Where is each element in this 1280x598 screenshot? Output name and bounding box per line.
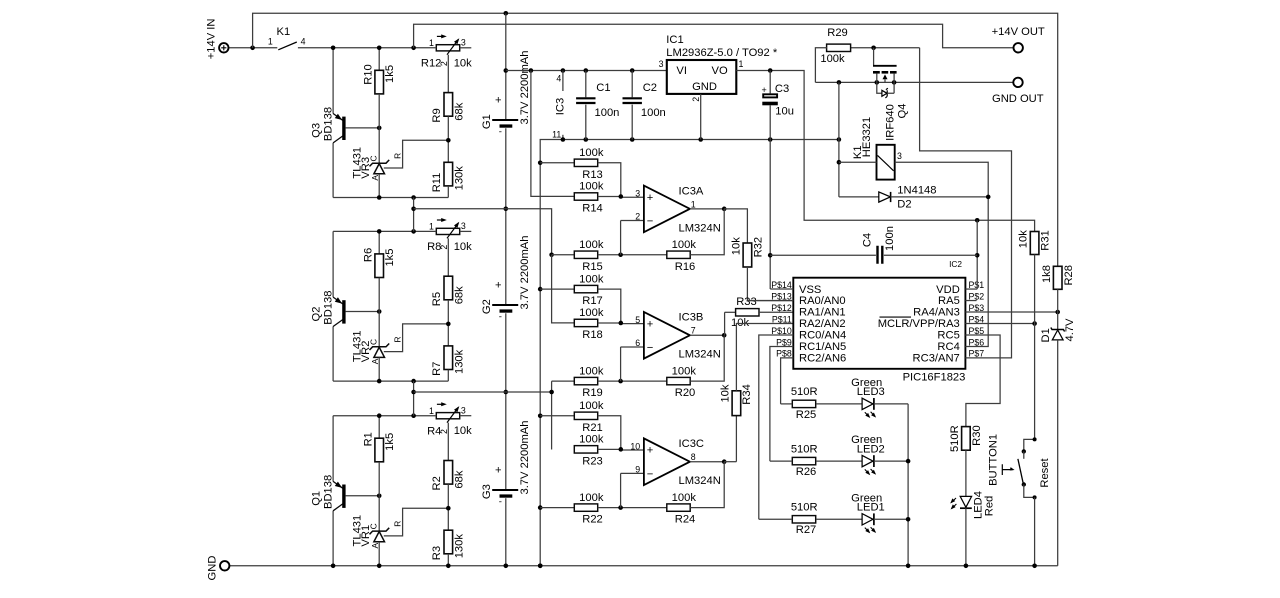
svg-text:BD138: BD138 xyxy=(322,475,334,509)
svg-text:4: 4 xyxy=(556,74,561,84)
svg-text:100k: 100k xyxy=(579,400,604,412)
svg-text:130k: 130k xyxy=(453,166,465,191)
svg-text:10k: 10k xyxy=(454,57,472,69)
svg-text:R6: R6 xyxy=(362,248,374,262)
svg-text:1: 1 xyxy=(691,199,696,209)
svg-text:P$13: P$13 xyxy=(771,291,792,301)
svg-text:R17: R17 xyxy=(582,295,603,307)
svg-text:LED2: LED2 xyxy=(857,443,885,455)
svg-text:R2: R2 xyxy=(431,476,443,490)
svg-text:1k5: 1k5 xyxy=(384,65,396,83)
svg-text:130k: 130k xyxy=(453,349,465,374)
svg-text:C2: C2 xyxy=(643,82,657,94)
svg-text:P$12: P$12 xyxy=(771,303,792,313)
svg-text:8: 8 xyxy=(691,452,696,462)
svg-text:IC3A: IC3A xyxy=(679,185,704,197)
svg-text:100k: 100k xyxy=(672,239,697,251)
svg-text:Reset: Reset xyxy=(1039,458,1051,488)
svg-text:68k: 68k xyxy=(453,470,465,488)
svg-text:100k: 100k xyxy=(579,147,604,159)
svg-text:Q3: Q3 xyxy=(311,123,323,138)
svg-text:LED3: LED3 xyxy=(857,386,885,398)
svg-text:10u: 10u xyxy=(775,106,794,118)
svg-text:100k: 100k xyxy=(579,307,604,319)
svg-text:R7: R7 xyxy=(431,362,443,376)
svg-text:P$1: P$1 xyxy=(969,280,985,290)
svg-text:LM324N: LM324N xyxy=(679,475,721,487)
svg-text:P$2: P$2 xyxy=(969,291,985,301)
svg-text:R16: R16 xyxy=(675,261,696,273)
svg-text:LED1: LED1 xyxy=(857,502,885,514)
svg-text:P$4: P$4 xyxy=(969,314,985,324)
svg-text:BD138: BD138 xyxy=(322,290,334,324)
svg-text:RC1/AN5: RC1/AN5 xyxy=(799,341,846,353)
svg-text:R31: R31 xyxy=(1040,230,1052,251)
svg-text:RC4: RC4 xyxy=(937,341,959,353)
svg-text:GND: GND xyxy=(692,81,717,93)
svg-text:BUTTON1: BUTTON1 xyxy=(987,434,999,486)
svg-text:1: 1 xyxy=(429,38,434,48)
svg-text:4: 4 xyxy=(301,36,306,46)
svg-text:R: R xyxy=(393,336,403,342)
svg-text:IC3B: IC3B xyxy=(679,312,704,324)
svg-text:LM2936Z-5.0 / TO92 *: LM2936Z-5.0 / TO92 * xyxy=(666,47,778,59)
svg-text:R32: R32 xyxy=(752,237,764,258)
svg-text:100k: 100k xyxy=(579,365,604,377)
svg-text:R29: R29 xyxy=(827,27,848,39)
svg-text:R: R xyxy=(393,521,403,527)
svg-text:G2: G2 xyxy=(481,299,493,314)
svg-text:7: 7 xyxy=(691,326,696,336)
svg-text:C4: C4 xyxy=(861,233,873,247)
svg-text:VI: VI xyxy=(676,65,687,77)
svg-text:3.7V 2200mAh: 3.7V 2200mAh xyxy=(519,235,531,309)
svg-text:68k: 68k xyxy=(453,102,465,120)
svg-text:IC3: IC3 xyxy=(555,98,567,115)
svg-text:11: 11 xyxy=(552,130,561,140)
svg-text:100k: 100k xyxy=(672,365,697,377)
svg-text:+: + xyxy=(647,445,654,457)
svg-text:510R: 510R xyxy=(791,443,818,455)
svg-text:R34: R34 xyxy=(741,384,753,405)
svg-text:10k: 10k xyxy=(454,241,472,253)
svg-text:C1: C1 xyxy=(596,82,610,94)
svg-text:R21: R21 xyxy=(582,422,603,434)
svg-text:1: 1 xyxy=(739,59,744,69)
svg-text:+: + xyxy=(495,95,502,107)
svg-text:P$10: P$10 xyxy=(771,326,792,336)
svg-text:C: C xyxy=(369,523,379,529)
svg-text:100k: 100k xyxy=(820,53,845,65)
svg-text:P$9: P$9 xyxy=(776,337,792,347)
svg-text:LM324N: LM324N xyxy=(679,222,721,234)
svg-text:R1: R1 xyxy=(362,432,374,446)
svg-text:−: − xyxy=(647,342,654,354)
svg-text:10k: 10k xyxy=(454,425,472,437)
svg-text:3.7V 2200mAh: 3.7V 2200mAh xyxy=(519,50,531,124)
svg-text:+: + xyxy=(647,192,654,204)
svg-text:P$3: P$3 xyxy=(969,303,985,313)
svg-text:D1: D1 xyxy=(1040,328,1052,342)
svg-text:G1: G1 xyxy=(481,114,493,129)
svg-text:1k5: 1k5 xyxy=(384,433,396,451)
svg-text:10k: 10k xyxy=(731,237,743,255)
svg-text:-: - xyxy=(499,497,502,508)
svg-text:3: 3 xyxy=(897,151,902,161)
svg-text:100n: 100n xyxy=(884,226,896,251)
svg-text:R15: R15 xyxy=(582,261,603,273)
svg-text:100k: 100k xyxy=(579,492,604,504)
svg-text:100k: 100k xyxy=(579,434,604,446)
svg-text:C: C xyxy=(369,155,379,161)
svg-text:3: 3 xyxy=(461,405,466,415)
svg-text:100n: 100n xyxy=(641,107,666,119)
svg-text:+: + xyxy=(762,85,767,95)
svg-text:GND: GND xyxy=(207,556,219,581)
svg-text:C: C xyxy=(369,339,379,345)
svg-text:1k8: 1k8 xyxy=(1041,265,1053,283)
svg-text:P$14: P$14 xyxy=(771,280,792,290)
svg-text:PIC16F1823: PIC16F1823 xyxy=(903,372,966,384)
svg-text:GND OUT: GND OUT xyxy=(992,93,1044,105)
svg-text:D2: D2 xyxy=(897,199,911,211)
svg-text:3: 3 xyxy=(659,59,664,69)
svg-text:RA0/AN0: RA0/AN0 xyxy=(799,295,846,307)
svg-text:BD138: BD138 xyxy=(322,107,334,141)
svg-text:10k: 10k xyxy=(731,317,749,329)
svg-text:R14: R14 xyxy=(582,203,603,215)
svg-text:130k: 130k xyxy=(453,534,465,559)
svg-text:Q2: Q2 xyxy=(311,307,323,322)
svg-text:R13: R13 xyxy=(582,169,603,181)
svg-text:R27: R27 xyxy=(796,524,817,536)
svg-text:+: + xyxy=(647,318,654,330)
svg-text:R4: R4 xyxy=(427,426,441,438)
svg-text:100n: 100n xyxy=(595,107,620,119)
svg-text:68k: 68k xyxy=(453,286,465,304)
svg-text:Red: Red xyxy=(983,496,995,517)
svg-text:RA4/AN3: RA4/AN3 xyxy=(913,307,960,319)
svg-text:RC2/AN6: RC2/AN6 xyxy=(799,353,846,365)
svg-text:RC3/AN7: RC3/AN7 xyxy=(913,353,960,365)
svg-text:−: − xyxy=(647,468,654,480)
svg-text:MCLR/VPP/RA3: MCLR/VPP/RA3 xyxy=(878,318,960,330)
svg-text:3: 3 xyxy=(461,38,466,48)
svg-text:3.7V 2200mAh: 3.7V 2200mAh xyxy=(519,420,531,494)
svg-text:R25: R25 xyxy=(796,409,817,421)
svg-text:C3: C3 xyxy=(775,83,789,95)
svg-text:R5: R5 xyxy=(431,292,443,306)
svg-text:4.7V: 4.7V xyxy=(1064,318,1076,342)
svg-text:P$5: P$5 xyxy=(969,326,985,336)
svg-text:10k: 10k xyxy=(1018,230,1030,248)
svg-text:510R: 510R xyxy=(791,502,818,514)
svg-text:1k5: 1k5 xyxy=(384,249,396,267)
svg-text:10: 10 xyxy=(630,441,640,451)
svg-text:-: - xyxy=(499,312,502,323)
svg-text:1: 1 xyxy=(429,406,434,416)
svg-text:100k: 100k xyxy=(579,273,604,285)
svg-text:R11: R11 xyxy=(431,173,443,193)
svg-text:10k: 10k xyxy=(720,384,732,402)
svg-text:G3: G3 xyxy=(481,484,493,499)
svg-text:510R: 510R xyxy=(949,425,961,452)
svg-text:R23: R23 xyxy=(582,455,603,467)
svg-text:3: 3 xyxy=(635,188,640,198)
svg-text:+: + xyxy=(495,465,502,477)
svg-text:1: 1 xyxy=(268,36,273,46)
svg-text:R19: R19 xyxy=(582,387,603,399)
svg-text:2: 2 xyxy=(635,211,640,221)
svg-text:LM324N: LM324N xyxy=(679,349,721,361)
svg-text:A: A xyxy=(370,542,380,548)
svg-text:IC2: IC2 xyxy=(949,259,962,269)
svg-text:K1: K1 xyxy=(277,26,291,38)
svg-text:1N4148: 1N4148 xyxy=(897,184,936,196)
svg-text:R28: R28 xyxy=(1063,265,1075,286)
svg-text:9: 9 xyxy=(635,464,640,474)
svg-text:510R: 510R xyxy=(791,386,818,398)
svg-text:RA2/AN2: RA2/AN2 xyxy=(799,318,846,330)
svg-text:1: 1 xyxy=(429,222,434,232)
svg-text:VSS: VSS xyxy=(799,284,821,296)
svg-text:−: − xyxy=(647,215,654,227)
svg-text:R33: R33 xyxy=(736,296,757,308)
svg-text:R9: R9 xyxy=(431,108,443,122)
svg-text:R12: R12 xyxy=(421,58,442,70)
svg-text:A: A xyxy=(370,175,380,181)
svg-text:+14V IN: +14V IN xyxy=(205,19,217,60)
svg-text:VDD: VDD xyxy=(936,284,960,296)
svg-text:-: - xyxy=(499,127,502,138)
svg-text:100k: 100k xyxy=(579,239,604,251)
svg-text:IC3C: IC3C xyxy=(679,438,705,450)
svg-text:A: A xyxy=(370,358,380,364)
svg-text:P$6: P$6 xyxy=(969,337,985,347)
svg-text:P$7: P$7 xyxy=(969,349,985,359)
svg-text:Q4: Q4 xyxy=(896,104,908,119)
svg-text:VO: VO xyxy=(712,65,728,77)
svg-text:P$8: P$8 xyxy=(776,349,792,359)
svg-text:HE3321: HE3321 xyxy=(861,117,873,157)
svg-text:R: R xyxy=(393,153,403,159)
svg-text:RC0/AN4: RC0/AN4 xyxy=(799,330,846,342)
svg-text:2: 2 xyxy=(691,97,701,102)
svg-text:P$11: P$11 xyxy=(772,314,792,324)
svg-text:IC1: IC1 xyxy=(666,34,683,46)
svg-text:R20: R20 xyxy=(675,387,696,399)
svg-text:R18: R18 xyxy=(582,329,603,341)
svg-text:R22: R22 xyxy=(582,514,603,526)
svg-text:R10: R10 xyxy=(362,64,374,85)
svg-text:RC5: RC5 xyxy=(937,330,959,342)
svg-text:+14V OUT: +14V OUT xyxy=(992,26,1045,38)
svg-text:100k: 100k xyxy=(672,492,697,504)
svg-text:3: 3 xyxy=(461,221,466,231)
svg-text:100k: 100k xyxy=(579,181,604,193)
svg-text:IRF640: IRF640 xyxy=(885,104,897,141)
svg-text:RA5: RA5 xyxy=(938,295,960,307)
svg-text:R3: R3 xyxy=(431,546,443,560)
svg-text:R8: R8 xyxy=(427,241,441,253)
svg-text:5: 5 xyxy=(635,315,640,325)
svg-text:RA1/AN1: RA1/AN1 xyxy=(799,307,846,319)
svg-text:Q1: Q1 xyxy=(311,491,323,506)
svg-text:R30: R30 xyxy=(971,425,983,446)
svg-text:R26: R26 xyxy=(796,466,817,478)
svg-text:6: 6 xyxy=(635,338,640,348)
svg-text:R24: R24 xyxy=(675,514,696,526)
svg-text:+: + xyxy=(495,280,502,292)
